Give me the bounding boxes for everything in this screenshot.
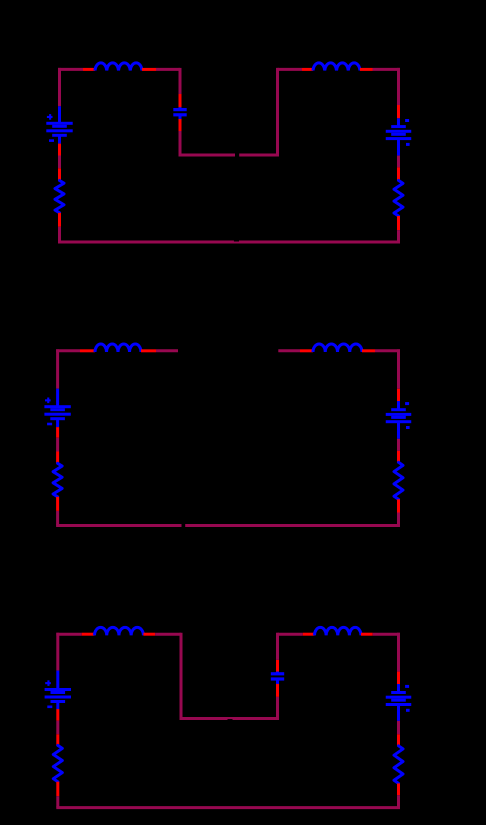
battery V1 [46,106,72,143]
wire [56,709,59,721]
wire [56,511,59,526]
wire [56,427,59,438]
wire [58,156,61,169]
wire [58,241,400,244]
wire [278,68,303,71]
wire [278,349,300,352]
wire [276,633,279,660]
wire [156,68,180,71]
battery V3 [44,389,70,427]
wire [375,349,400,352]
wire [373,633,400,636]
wire [397,105,400,118]
wire [56,524,181,527]
wire [397,349,400,389]
wire [56,438,59,452]
wire [179,131,182,157]
wire [56,796,59,807]
wire [239,154,277,157]
wire [56,349,80,352]
inductor L3 [80,344,156,352]
node B (circuit 2 loop) [44,344,411,526]
battery V6 [386,684,412,721]
wire [397,156,400,168]
resistor R6 [394,734,403,795]
wire [56,721,59,735]
resistor R2 [394,167,403,230]
wire [156,349,178,352]
wire [397,513,400,526]
wire [58,68,83,71]
battery V4 [386,401,412,439]
capacitor C2 [271,660,284,697]
inductor L5 [82,627,155,635]
battery V5 [45,671,71,710]
wire [58,227,61,242]
wire [56,633,59,671]
node joint (circuit 3 step) [228,719,233,720]
wire [180,154,235,157]
inductor L4 [300,344,375,352]
wire [155,633,181,636]
wire [179,68,182,94]
resistor R3 [53,452,62,511]
wire [58,144,61,156]
wire [397,672,400,684]
inductor L1 [83,63,156,71]
node C (circuit 3 loop) [45,627,412,807]
node joint (circuit 1 bottom) [234,240,239,241]
wire [397,230,400,242]
battery V2 [386,118,412,155]
wire [56,349,59,388]
wire [180,633,183,720]
capacitor C1 [173,94,186,131]
inductor L2 [302,63,373,71]
inductor L6 [303,627,373,635]
wire [181,717,278,720]
wire [276,697,279,720]
node A (circuit 1 top-left loop) [46,63,411,242]
wire [397,795,400,807]
resistor R4 [394,451,403,513]
wire [56,806,400,809]
wire [278,633,303,636]
wire [397,721,400,734]
wire [373,68,401,71]
wire [397,633,400,672]
resistor R5 [53,734,62,796]
wire [56,633,81,636]
wire [58,68,61,106]
resistor R1 [55,168,64,227]
wire [397,439,400,451]
wire [397,68,400,105]
wire [276,68,279,157]
wire [185,524,400,527]
wire [397,389,400,401]
